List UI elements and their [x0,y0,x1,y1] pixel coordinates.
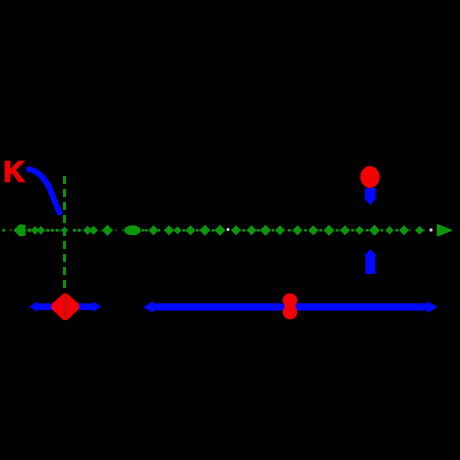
blue up arrow toward axis [364,249,377,274]
svg-text:K: K [4,157,25,189]
x-axis dash-dot base line [3,229,448,231]
label K [4,157,25,189]
vertical dashed line at x=K fixed point [63,176,66,288]
bottom flow line: left outward arrow [29,301,53,312]
dark seam on red marker [64,296,66,318]
x-axis left arrowhead [15,225,25,236]
blue down arrow toward axis [364,188,378,205]
x-axis markers (diamonds) [2,225,424,236]
white dot artifact near x=228 [227,228,230,231]
red marker on long line [283,293,297,319]
bottom flow line: right outward arrow [78,301,102,312]
long flow line [150,303,430,310]
long flow line left arrowhead [143,301,154,313]
x-axis right arrowhead [438,225,452,236]
unstable fixed point big red marker [55,298,75,317]
red ball above axis (decaying state) [360,166,379,188]
white dot artifact near x=431 [429,228,432,231]
long flow line right arrowhead [428,301,438,313]
solution curve [29,169,60,212]
